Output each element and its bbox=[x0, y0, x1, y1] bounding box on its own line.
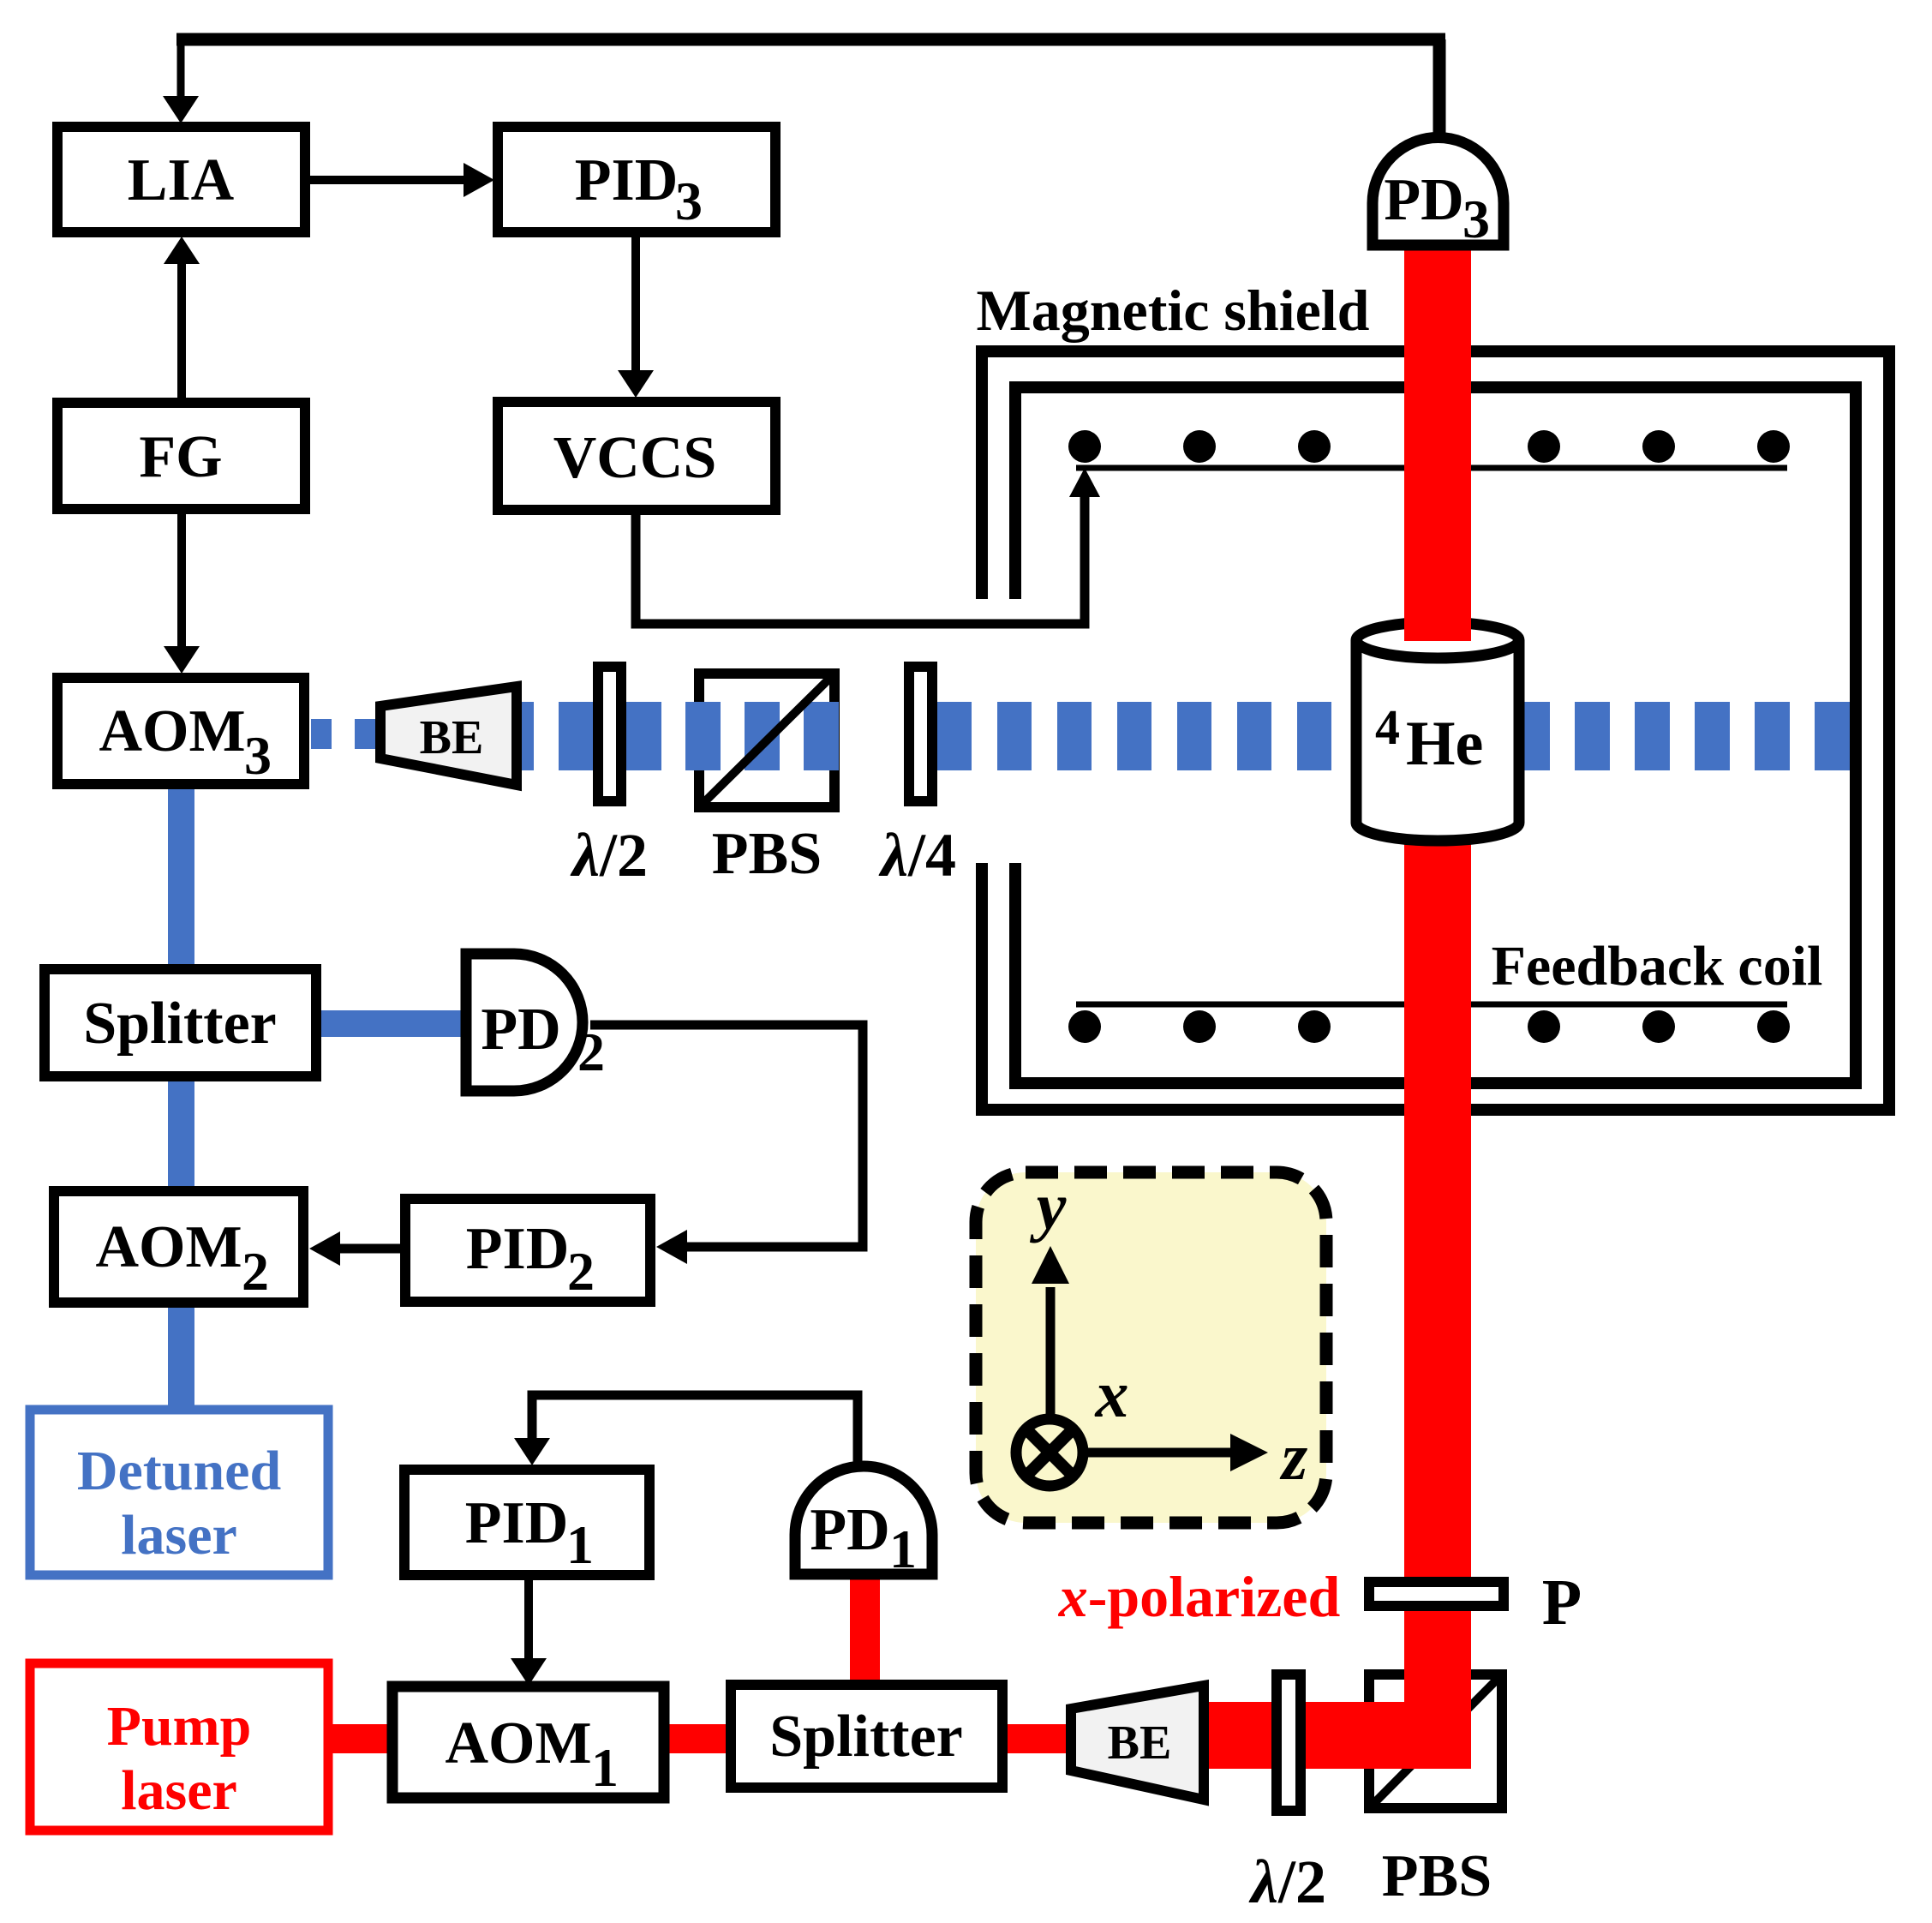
svg-text:λ/2: λ/2 bbox=[570, 821, 648, 890]
svg-text:FG: FG bbox=[139, 424, 222, 490]
wire PD1 to PID1 with arrow bbox=[532, 1395, 858, 1469]
svg-text:P: P bbox=[1542, 1567, 1582, 1638]
svg-text:He: He bbox=[1406, 709, 1483, 779]
box FG bbox=[57, 403, 305, 509]
svg-text:BE: BE bbox=[420, 711, 484, 764]
box AOM2 bbox=[54, 1191, 303, 1303]
svg-text:PD: PD bbox=[481, 997, 560, 1063]
svg-text:PBS: PBS bbox=[1382, 1843, 1492, 1909]
half-wave plate bottom bbox=[1277, 1674, 1301, 1811]
box PID1 bbox=[404, 1470, 649, 1575]
svg-text:PID: PID bbox=[575, 147, 679, 213]
svg-text:laser: laser bbox=[121, 1504, 237, 1567]
svg-text:z: z bbox=[1279, 1419, 1308, 1494]
photodiode PD1 bbox=[795, 1466, 932, 1574]
photodiode PD3 bbox=[1373, 138, 1504, 246]
svg-text:2: 2 bbox=[242, 1241, 269, 1302]
box VCCS bbox=[498, 402, 775, 510]
svg-text:Detuned: Detuned bbox=[77, 1440, 281, 1502]
red beam PD1 to Splitter bbox=[850, 1577, 880, 1683]
svg-text:BE: BE bbox=[1108, 1716, 1172, 1770]
red beam Splitter to BE bbox=[1005, 1724, 1068, 1753]
box PID2 bbox=[405, 1199, 650, 1302]
PBS top box bbox=[699, 674, 834, 807]
svg-text:1: 1 bbox=[591, 1737, 619, 1798]
svg-text:Feedback coil: Feedback coil bbox=[1492, 935, 1823, 997]
svg-text:Pump: Pump bbox=[107, 1695, 252, 1758]
box LIA bbox=[57, 127, 305, 232]
svg-text:LIA: LIA bbox=[128, 147, 235, 213]
z axis bbox=[1083, 1434, 1268, 1471]
y axis bbox=[1032, 1246, 1069, 1417]
svg-text:VCCS: VCCS bbox=[553, 425, 717, 491]
svg-text:PBS: PBS bbox=[712, 821, 822, 887]
arrow FG to LIA bbox=[177, 261, 186, 398]
coordinate inset yellow box bbox=[976, 1172, 1326, 1523]
svg-text:λ/4: λ/4 bbox=[878, 821, 956, 890]
arrow PID3 to VCCS bbox=[631, 237, 640, 371]
feedback coil bottom dots bbox=[1068, 1010, 1790, 1043]
box AOM3 bbox=[57, 678, 304, 784]
feedback coil bottom line bbox=[1076, 1002, 1787, 1008]
feedback coil top line bbox=[1076, 465, 1787, 471]
svg-text:Splitter: Splitter bbox=[769, 1704, 963, 1770]
red beam AOM1 to Splitter bbox=[667, 1724, 728, 1753]
svg-text:3: 3 bbox=[244, 725, 272, 786]
quarter-wave plate top bbox=[909, 667, 932, 801]
svg-text:Splitter: Splitter bbox=[83, 991, 277, 1057]
svg-text:1: 1 bbox=[889, 1519, 917, 1579]
svg-text:1: 1 bbox=[566, 1514, 594, 1575]
red thick beam BE to PBS bbox=[1206, 1702, 1471, 1769]
PBS top diagonal bbox=[699, 674, 834, 807]
arrow PID1 to AOM1 bbox=[524, 1575, 533, 1659]
arrow LIA to PID3 bbox=[310, 176, 470, 184]
blue dashes inside PBS top bbox=[626, 702, 846, 770]
svg-text:AOM: AOM bbox=[445, 1710, 591, 1776]
svg-text:PID: PID bbox=[466, 1216, 570, 1282]
svg-text:Magnetic shield: Magnetic shield bbox=[977, 278, 1370, 343]
beam expander BE bottom bbox=[1071, 1686, 1204, 1800]
polarizer P bbox=[1369, 1582, 1504, 1606]
svg-text:x-polarized: x-polarized bbox=[1058, 1564, 1341, 1629]
svg-text:AOM: AOM bbox=[95, 1214, 242, 1280]
box AOM1 bbox=[392, 1686, 664, 1798]
svg-text:PID: PID bbox=[465, 1490, 569, 1556]
photodiode PD2 bbox=[466, 954, 583, 1091]
red beam Pump to AOM1 bbox=[330, 1724, 390, 1753]
arrow FG to AOM3 bbox=[177, 512, 186, 647]
axis origin (x into page) bbox=[1016, 1419, 1083, 1486]
blue dashed thin beam AOM3 to BE bbox=[311, 719, 375, 749]
svg-text:2: 2 bbox=[577, 1021, 605, 1082]
svg-text:x: x bbox=[1095, 1357, 1129, 1431]
PBS bottom box with diagonal bbox=[1369, 1674, 1502, 1808]
wire PD3 to LIA feedback bbox=[1433, 39, 1446, 137]
svg-text:laser: laser bbox=[121, 1759, 237, 1822]
feedback coil top dots bbox=[1068, 430, 1790, 463]
blue line Splitter to AOM2 bbox=[168, 1078, 194, 1189]
svg-text:3: 3 bbox=[1462, 189, 1490, 249]
blue dashed thick beam BE to shield bbox=[522, 702, 593, 770]
box Splitter left bbox=[45, 969, 316, 1076]
svg-text:PD: PD bbox=[1384, 167, 1463, 233]
magnetic shield inner wall bbox=[1015, 387, 1856, 1083]
half-wave plate top bbox=[598, 667, 621, 801]
He cell cylinder bbox=[1356, 622, 1519, 841]
box Detuned laser bbox=[30, 1410, 328, 1575]
arrow PID2 to AOM2 bbox=[334, 1244, 400, 1254]
svg-text:AOM: AOM bbox=[99, 698, 245, 764]
red thick beam PBS up to He cell bbox=[1404, 836, 1471, 1769]
blue line AOM3 to Splitter bbox=[168, 784, 194, 968]
svg-text:2: 2 bbox=[567, 1241, 595, 1302]
box PID3 bbox=[498, 127, 775, 232]
svg-text:4: 4 bbox=[1375, 699, 1400, 755]
magnetic shield outer wall bbox=[982, 351, 1889, 1110]
svg-text:3: 3 bbox=[675, 171, 703, 231]
svg-text:PD: PD bbox=[810, 1497, 889, 1563]
svg-text:λ/2: λ/2 bbox=[1248, 1848, 1326, 1916]
box Splitter bottom bbox=[731, 1685, 1002, 1788]
red thick beam He cell to PD3 bbox=[1404, 250, 1471, 641]
box Pump laser bbox=[30, 1663, 328, 1830]
wire PD2 to PID2 with arrow bbox=[590, 1025, 863, 1247]
blue line AOM2 to Detuned laser bbox=[168, 1304, 194, 1407]
beam expander BE top bbox=[380, 686, 517, 785]
wire VCCS to coil with arrow bbox=[636, 480, 1085, 624]
blue line Splitter to PD2 bbox=[318, 1010, 465, 1037]
